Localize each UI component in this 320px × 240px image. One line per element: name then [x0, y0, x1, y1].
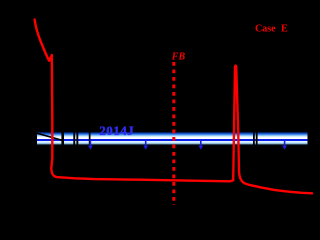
band gap tick 1	[61, 132, 64, 146]
upper-limit arrow 4	[282, 140, 287, 150]
upper-limit arrow 1	[88, 140, 93, 150]
red light curve	[35, 20, 312, 194]
upper-limit arrow 3	[199, 140, 204, 150]
svg-text:FB: FB	[171, 52, 186, 63]
FB dotted vertical line	[172, 62, 175, 205]
svg-text:E: E	[281, 23, 288, 34]
band gap tick 4	[89, 132, 91, 146]
band gap tick 3	[76, 132, 78, 146]
svg-text:2014J: 2014J	[99, 123, 134, 138]
svg-text:Case: Case	[255, 23, 276, 34]
observation band 2014J	[37, 132, 308, 146]
band gap tick 2	[73, 132, 75, 146]
band start diagonal tick	[37, 133, 64, 140]
band gap tick 6	[256, 132, 258, 146]
band gap tick 5	[253, 132, 255, 146]
upper-limit arrow 2	[143, 140, 148, 150]
